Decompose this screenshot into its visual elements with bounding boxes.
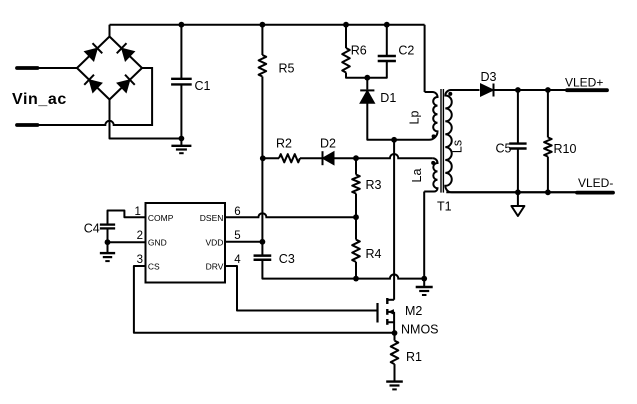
node R10 top junction (545, 87, 551, 93)
polarity dot Ls (448, 92, 452, 96)
svg-text:R6: R6 (351, 44, 367, 58)
winding Ls (445, 90, 577, 192)
ground near transformer (423, 279, 425, 287)
svg-text:VLED+: VLED+ (565, 76, 603, 90)
wire D1 cathode lead (366, 78, 368, 90)
resistor R3 (352, 175, 360, 194)
resistor R10 (544, 137, 552, 156)
svg-text:Vin_ac: Vin_ac (12, 91, 67, 108)
svg-text:C4: C4 (84, 221, 100, 235)
bridge diode top-left (85, 48, 98, 61)
wire C1 bottom lead (180, 84, 182, 138)
node C1 bottom / ground junction (179, 136, 185, 142)
svg-text:R2: R2 (276, 137, 292, 151)
bridge diode bottom-right (117, 80, 130, 93)
svg-text:DSEN: DSEN (200, 213, 224, 223)
svg-text:VDD: VDD (205, 238, 223, 248)
node D2/R3/La junction (353, 155, 359, 161)
wire DSEN pin to R3/R4 node with jump over R5 line (225, 213, 356, 217)
svg-text:R10: R10 (554, 142, 577, 156)
winding La (424, 158, 437, 191)
wire R3 top lead (355, 158, 357, 174)
terminal VLED+ (567, 88, 607, 92)
svg-text:C3: C3 (279, 252, 295, 266)
wire R6 bottom lead (346, 73, 367, 78)
ground secondary (open triangle) (517, 192, 519, 206)
svg-text:C5: C5 (496, 142, 512, 156)
wire COMP pin to C4 (108, 211, 146, 225)
wire CS pin to M2 source (134, 266, 395, 333)
diode D1 (360, 90, 375, 103)
wire bridge right vertex down to line2 with jump over bottom-vertex wire (36, 68, 152, 125)
wire C1 top lead (180, 25, 182, 79)
bridge diode bottom-left (89, 80, 102, 93)
op-amp/controller U1 box (146, 203, 226, 283)
node C5 top junction (515, 87, 521, 93)
wire secondary bottom rail (446, 191, 577, 193)
wire La top lead with jump over drain wire (356, 154, 433, 158)
capacitor C5 (509, 142, 526, 144)
svg-text:R3: R3 (366, 178, 382, 192)
wire line1 to bridge left vertex (36, 67, 77, 69)
wire DRV pin to M2 gate (225, 266, 377, 311)
svg-text:4: 4 (234, 254, 241, 266)
polarity dot Lp (432, 134, 436, 138)
node R2 left junction (260, 155, 266, 161)
svg-text:Ls: Ls (451, 140, 465, 153)
svg-text:R4: R4 (366, 247, 382, 261)
node R6/C2/D1 junction (364, 75, 370, 81)
wire C4 bottom lead (107, 228, 109, 242)
transistor M2 source lead (387, 322, 394, 333)
core T1 (440, 89, 442, 193)
winding Lp (394, 92, 437, 140)
wire D1 anode to Lp bottom node (367, 102, 394, 140)
wire Lp-bottom node to M2 drain (393, 140, 395, 300)
capacitor C3 (254, 254, 272, 257)
wire VDD pin to node (225, 241, 262, 243)
svg-text:La: La (410, 169, 424, 183)
capacitor C2 (378, 55, 396, 57)
wire R2 to D2 cathode (300, 157, 323, 159)
wire R5 top lead (261, 25, 263, 55)
svg-text:NMOS: NMOS (401, 323, 439, 337)
svg-text:VLED-: VLED- (578, 176, 613, 190)
terminal VLED- (577, 191, 613, 195)
ground under C4 (107, 242, 109, 253)
svg-text:2: 2 (137, 230, 143, 242)
svg-text:D3: D3 (481, 70, 497, 84)
diode D2 (323, 152, 335, 165)
node VDD junction (260, 239, 266, 245)
node C2 top junction (384, 22, 390, 28)
node C1 top junction (179, 22, 185, 28)
node R6 top junction (343, 22, 349, 28)
diode D3 (481, 84, 494, 96)
capacitor C4 (100, 223, 115, 225)
wire R5 bottom to R2 node (261, 77, 263, 159)
transistor M2 channel segments (386, 298, 388, 304)
wire R10 top lead (547, 90, 549, 137)
node La bottom / ground junction (421, 276, 427, 282)
terminal Vin_ac line2 (17, 123, 38, 127)
wire bridge bottom vertex to negative rail (110, 100, 182, 139)
wire C2 top lead (386, 25, 388, 56)
svg-text:3: 3 (137, 254, 143, 266)
wire top DC rail (110, 24, 425, 26)
wire GND pin to node (108, 241, 146, 243)
svg-text:C2: C2 (398, 44, 414, 58)
ground under R1 (386, 380, 403, 382)
wire C3 top lead (261, 242, 263, 256)
bridge diode top-right (122, 48, 135, 61)
wire bottom return with jump over drain wire (356, 274, 424, 278)
wire R1 bottom lead (394, 364, 396, 382)
svg-text:R1: R1 (406, 350, 422, 364)
node R5 top junction (260, 22, 266, 28)
wire C5 bottom lead (517, 149, 519, 193)
node C5 bottom junction (515, 189, 521, 195)
transistor M2 body arrow (387, 311, 394, 313)
resistor R1 (391, 341, 399, 365)
wire R2 node down to VDD node (261, 158, 263, 242)
bridge rectifier diamond (77, 37, 142, 100)
resistor R6 (342, 48, 350, 73)
polarity dot La (431, 161, 435, 165)
wire R6 top lead (345, 25, 347, 48)
transistor M2 gate bar (376, 303, 378, 323)
wire C2 bottom lead (367, 61, 387, 78)
terminal Vin_ac line1 (17, 66, 38, 70)
node DSEN/R3/R4 junction (353, 214, 359, 220)
resistor R2 (279, 154, 300, 162)
svg-text:COMP: COMP (148, 213, 174, 223)
wire R2 left lead (263, 157, 279, 159)
svg-text:C1: C1 (195, 79, 211, 93)
wire D3 cathode to VLED+ terminal (494, 89, 568, 91)
svg-text:Lp: Lp (408, 111, 422, 125)
svg-text:T1: T1 (437, 200, 452, 214)
svg-text:M2: M2 (405, 304, 422, 318)
svg-text:5: 5 (234, 230, 240, 242)
wire La bottom lead (423, 192, 425, 279)
wire R1 top lead (394, 333, 396, 341)
node M2 source / CS / R1 junction (392, 330, 398, 336)
node R4 bottom junction (353, 276, 359, 282)
wire bridge top vertex to rail (109, 25, 111, 37)
resistor R4 (352, 240, 360, 262)
transistor M2 drain lead (387, 299, 394, 301)
wire R4 top lead (355, 217, 357, 239)
svg-text:CS: CS (148, 262, 160, 272)
wire R10 bottom lead (547, 157, 549, 193)
resistor R5 (259, 55, 267, 77)
wire R3 bottom to DSEN node (355, 194, 357, 218)
wire Lp top lead (424, 25, 426, 92)
svg-text:GND: GND (148, 238, 167, 248)
wire R4 bottom lead (355, 262, 357, 279)
ground under C1 (180, 139, 182, 146)
wire D2 anode to node (334, 157, 356, 159)
node C4/GND junction (105, 239, 111, 245)
svg-text:D2: D2 (320, 137, 336, 151)
wire C5 top lead (517, 90, 519, 144)
svg-text:R5: R5 (279, 62, 295, 76)
capacitor C1 (171, 78, 192, 80)
wire C3 bottom lead (262, 260, 356, 279)
svg-text:DRV: DRV (206, 262, 224, 272)
node R10 bottom junction (545, 189, 551, 195)
node Lp bottom / drain junction (391, 137, 397, 143)
svg-text:D1: D1 (380, 91, 396, 105)
